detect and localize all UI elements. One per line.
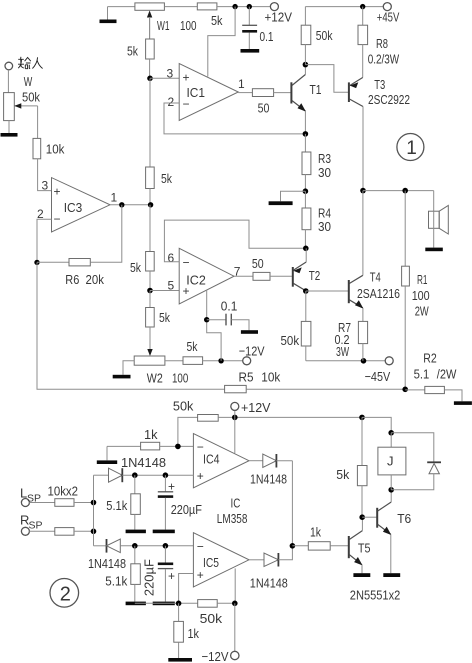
svg-text:6: 6 <box>168 251 175 265</box>
terminal -12V (bottom) <box>231 651 239 659</box>
transistor T3 <box>349 78 363 191</box>
resistor R2 5.1/2W <box>405 386 462 401</box>
wire divider bus <box>135 602 198 604</box>
resistor 5k (top rail) <box>197 3 217 10</box>
op-amp IC5 <box>193 533 249 587</box>
svg-text:−: − <box>54 212 61 226</box>
svg-text:1N4148: 1N4148 <box>121 455 166 470</box>
svg-text:50k: 50k <box>173 399 194 414</box>
svg-text:50: 50 <box>258 101 270 116</box>
terminal -45V <box>385 357 393 365</box>
svg-text:50k: 50k <box>22 90 40 105</box>
svg-text:IC5: IC5 <box>203 555 219 570</box>
ground (top left, W1 rail) <box>100 7 135 24</box>
svg-text:10k: 10k <box>261 370 280 385</box>
svg-text:2N5551x2: 2N5551x2 <box>350 588 401 603</box>
svg-text:1k: 1k <box>144 427 158 442</box>
label LSP <box>20 486 41 505</box>
terminal +12V (bottom) <box>231 402 239 417</box>
wire W1 to 5k top <box>164 6 197 8</box>
wire -45V rail <box>306 360 385 362</box>
wire 10k to IC3 pin3 <box>38 159 52 191</box>
input terminal 输入 <box>5 62 13 70</box>
node T2 emitter / T4 base <box>303 288 309 294</box>
wire node to IC1 pin3 <box>150 77 179 79</box>
svg-text:5k: 5k <box>127 44 138 59</box>
svg-text:5.1k: 5.1k <box>105 574 127 589</box>
svg-text:2: 2 <box>168 95 175 109</box>
relay J <box>378 433 406 490</box>
wire T2 emitter to T4 base <box>306 290 349 292</box>
svg-text:1: 1 <box>111 191 118 205</box>
svg-text:W: W <box>24 74 33 89</box>
svg-text:+: + <box>183 71 190 85</box>
node T1 emitter / R3 top <box>303 131 309 137</box>
resistor 5k (relay) <box>357 417 367 517</box>
svg-text:R1: R1 <box>417 272 428 287</box>
resistor 5k (d) <box>146 308 155 328</box>
resistor R4 30 <box>302 191 311 248</box>
svg-text:5k: 5k <box>187 339 198 354</box>
ground (220uF lower) <box>153 602 175 606</box>
wire T6 base <box>362 516 377 518</box>
ground (5.1k upper) <box>126 530 146 534</box>
wire input to pot W <box>7 70 9 93</box>
svg-text:2SA1216: 2SA1216 <box>357 286 400 301</box>
svg-text:3: 3 <box>167 67 174 81</box>
resistor 5.1k (lower) <box>131 546 141 602</box>
wire IC1 Vcc <box>208 7 235 77</box>
svg-text:T5: T5 <box>358 541 371 556</box>
svg-text:/2W: /2W <box>437 367 457 382</box>
node 220uF lower top <box>163 543 169 549</box>
svg-text:T2: T2 <box>309 268 321 283</box>
terminal RSP <box>21 527 29 535</box>
resistor 5k (a) <box>146 39 155 59</box>
node chain IC3 output <box>148 202 153 207</box>
wire IC4 V+ pin <box>234 417 236 453</box>
svg-text:1N4148: 1N4148 <box>250 472 287 487</box>
svg-text:IC1: IC1 <box>187 85 206 100</box>
wire IC1 output to 50 <box>238 92 252 94</box>
transistor T4 <box>349 191 364 322</box>
speaker <box>429 205 449 247</box>
resistor R8 0.2/3W <box>358 7 368 78</box>
resistor 1k (T5 base) <box>292 542 348 550</box>
ground (top 0.1 cap) <box>241 49 260 53</box>
node marker circle 1 <box>397 134 424 161</box>
svg-text:−12V: −12V <box>202 649 229 663</box>
resistor 50k (IC5 divider) <box>198 600 235 608</box>
wire bottom +12V rail <box>178 417 198 446</box>
ground (T6) <box>383 573 400 577</box>
wire 5k b to IC3 output node <box>149 189 151 205</box>
wire 1k to IC4 pin- <box>160 445 194 447</box>
svg-text:5k: 5k <box>161 171 172 186</box>
svg-text:30: 30 <box>318 165 331 180</box>
ground (W2) <box>113 375 131 379</box>
node T5 collector / T6 base <box>359 514 365 520</box>
wire T1 collector to T3 base <box>305 65 349 93</box>
wire to -12V terminal <box>234 603 236 651</box>
diode 1N4148 (IC4 output) <box>249 454 292 468</box>
wire main feedback line <box>37 262 225 389</box>
wire +45V rail <box>305 6 383 8</box>
node R1 top <box>402 188 408 194</box>
svg-text:3: 3 <box>42 179 49 193</box>
wire output rail <box>363 190 434 192</box>
wire 5k d to W2 wiper arrow <box>147 327 152 356</box>
svg-text:100: 100 <box>412 288 430 303</box>
svg-text:1N4148: 1N4148 <box>250 576 288 591</box>
node 5.1k upper top <box>132 472 138 478</box>
node 5k relay branch <box>359 415 365 421</box>
capacitor 220uF (upper) <box>158 475 173 529</box>
transistor T2 <box>293 248 306 291</box>
svg-text:R8: R8 <box>376 36 388 51</box>
node marker circle 2 <box>50 579 79 608</box>
svg-text:−12V: −12V <box>239 344 265 359</box>
svg-text:50k: 50k <box>316 28 333 43</box>
wire to speaker <box>433 191 435 212</box>
svg-text:5: 5 <box>168 279 175 293</box>
resistor 10k <box>33 138 41 158</box>
wire IC3 output <box>110 204 151 206</box>
svg-text:+: + <box>168 569 175 583</box>
wire chain node to 5k b <box>149 78 151 167</box>
resistor 10k (R input) <box>29 528 93 536</box>
label 输入 <box>18 57 43 69</box>
svg-text:IC2: IC2 <box>186 273 206 288</box>
wire IC5 + input divider <box>179 574 194 604</box>
svg-text:SP: SP <box>29 520 43 532</box>
wire mix bus vertical <box>93 475 95 546</box>
transistor T1 <box>291 65 306 134</box>
resistor 5k (e) <box>183 357 203 365</box>
node R4 bottom / T2 collector <box>303 246 309 252</box>
wire 5k c to IC2 pin5 node <box>149 271 151 291</box>
wire 5k e to -12V <box>203 360 243 362</box>
ground (speaker) <box>425 248 443 252</box>
resistor 50k (IC4 feedback) <box>198 415 219 422</box>
node -12V branch <box>218 358 223 363</box>
node output rail left <box>360 188 366 194</box>
node IC3 inverting input <box>34 260 39 265</box>
node R mix <box>91 529 97 535</box>
resistor 5k (b) <box>146 167 155 189</box>
svg-text:IC4: IC4 <box>203 452 220 467</box>
wire W2 left to ground <box>123 361 134 375</box>
svg-text:+45V: +45V <box>377 10 400 25</box>
svg-text:T3: T3 <box>374 77 385 92</box>
wire rail to relay branch <box>218 416 362 418</box>
svg-text:W2: W2 <box>147 371 163 386</box>
node relay top <box>388 430 394 436</box>
op-amp IC3 <box>52 178 111 232</box>
wire pot bottom to ground <box>8 121 10 133</box>
svg-text:+: + <box>197 568 204 582</box>
svg-text:20k: 20k <box>86 272 105 287</box>
ground (5.1k lower) <box>126 602 146 606</box>
op-amp IC1 <box>179 64 238 121</box>
terminal LSP <box>21 499 29 507</box>
svg-text:5.1k: 5.1k <box>106 498 127 513</box>
node R8 rail <box>360 4 365 9</box>
svg-text:2: 2 <box>60 583 71 605</box>
svg-text:1N4148: 1N4148 <box>88 556 126 571</box>
wire node to 5k d <box>149 291 151 308</box>
svg-text:IC3: IC3 <box>64 200 82 215</box>
wire IC2 pin6 feedback path <box>164 220 305 262</box>
svg-text:1k: 1k <box>310 525 321 540</box>
svg-text:−45V: −45V <box>365 369 391 384</box>
ground (IC4 1k input) <box>97 446 117 464</box>
svg-text:T4: T4 <box>370 270 381 285</box>
resistor R1 100 2W <box>402 191 410 390</box>
diode 1N4148 (upper) <box>94 468 194 482</box>
svg-text:0.1: 0.1 <box>221 299 238 314</box>
svg-text:LM358: LM358 <box>217 511 248 526</box>
potentiometer W1 100 <box>135 3 165 39</box>
svg-text:100: 100 <box>172 371 188 386</box>
svg-text:R5: R5 <box>239 370 254 385</box>
node rail / 0.1 cap <box>247 4 252 9</box>
ground (T5) <box>353 573 370 577</box>
svg-text:R2: R2 <box>423 351 437 366</box>
svg-text:220µF: 220µF <box>142 559 157 596</box>
svg-text:−: − <box>183 256 190 270</box>
node R7 bottom <box>361 358 367 364</box>
node diode OR <box>290 543 296 549</box>
svg-text:30: 30 <box>318 219 331 234</box>
node relay bottom <box>388 487 394 493</box>
svg-text:+12V: +12V <box>241 400 271 415</box>
node 220uF upper top <box>163 472 169 478</box>
node 5.1k lower top <box>132 543 138 549</box>
op-amp IC2 <box>179 248 234 304</box>
diode 1N4148 (IC5 output) <box>249 546 292 567</box>
resistor 50 (IC2 to T2) <box>253 272 270 280</box>
svg-text:5.1: 5.1 <box>414 367 430 382</box>
resistor 5k (c) <box>146 252 155 272</box>
ground (IC2 bypass) <box>241 330 258 334</box>
resistor 1k (IC4 input) <box>141 442 160 450</box>
svg-text:+: + <box>54 185 61 199</box>
ground (R2) <box>454 401 472 405</box>
op-amp IC4 <box>193 434 249 488</box>
svg-text:50: 50 <box>252 256 264 271</box>
potentiometer W2 100 <box>134 356 165 365</box>
resistor 50k (T2 emitter) <box>301 291 311 361</box>
wire ground to 1k <box>107 445 141 447</box>
svg-text:+12V: +12V <box>265 10 293 25</box>
svg-text:3W: 3W <box>336 344 349 359</box>
wire W2 right to 5k e <box>165 360 183 362</box>
capacitor 0.1 (top) <box>242 7 257 49</box>
label RSP <box>20 513 43 532</box>
wire node to IC2 pin5 <box>150 290 179 292</box>
svg-text:+: + <box>197 469 204 483</box>
potentiometer W 50k <box>4 93 38 121</box>
wire IC2 output to 50 <box>234 275 253 277</box>
node IC2 V- bypass <box>204 317 209 322</box>
svg-text:5k: 5k <box>211 13 223 28</box>
wire IC5 V- pin <box>234 568 236 603</box>
wire 5k to +12V <box>217 6 271 8</box>
wire IC2 V- pin to bypass node <box>207 290 221 361</box>
node IC2 pin5 <box>147 288 153 294</box>
node rail / IC1 Vcc <box>232 4 237 9</box>
resistor R6 20k <box>37 205 122 266</box>
svg-text:5k: 5k <box>159 310 170 325</box>
svg-text:IC: IC <box>231 496 241 511</box>
svg-text:0.2/3W: 0.2/3W <box>368 52 400 67</box>
node R6 feedback top <box>119 202 124 207</box>
wire node to 5k c <box>149 205 151 252</box>
svg-text:2SC2922: 2SC2922 <box>368 92 410 107</box>
svg-text:W1: W1 <box>157 18 170 33</box>
ground (below W pot) <box>1 133 18 137</box>
node IC4 inverting input <box>175 444 181 450</box>
node T1 collector <box>303 62 309 68</box>
wire rail to relay top <box>362 417 391 432</box>
node R5 / R1 / R2 <box>402 387 408 393</box>
svg-text:2W: 2W <box>415 304 430 319</box>
resistor 1k (IC5 divider) <box>174 603 184 658</box>
terminal -12V (IC2) <box>243 357 251 365</box>
svg-text:100: 100 <box>180 18 197 33</box>
wire W1 wiper chain to 5k a <box>149 17 151 39</box>
node 50k to -12V <box>232 601 238 607</box>
svg-text:1: 1 <box>238 77 245 91</box>
svg-text:220µF: 220µF <box>171 502 202 517</box>
transistor T5 <box>349 517 363 573</box>
svg-text:T6: T6 <box>397 511 411 526</box>
svg-text:J: J <box>387 454 394 469</box>
resistor 5.1k (upper) <box>131 475 141 529</box>
wire IC1 pin2 feedback to T1 emitter <box>164 103 305 134</box>
svg-text:R6: R6 <box>65 272 79 287</box>
wire IC3 pin2 left and down <box>37 219 52 262</box>
svg-text:5k: 5k <box>130 260 141 275</box>
ground (R3/R4 midpoint) <box>269 191 306 205</box>
resistor R7 0.2 3W <box>358 321 367 360</box>
svg-text:50k: 50k <box>281 333 300 348</box>
wire 50 to T1 base <box>274 92 292 94</box>
svg-text:T1: T1 <box>310 82 322 97</box>
node IC1 pin3 <box>147 76 153 82</box>
terminal +12V (top) <box>270 3 278 11</box>
resistor R5 10k <box>225 385 406 392</box>
node L mix <box>91 500 97 506</box>
svg-text:10k: 10k <box>46 142 65 157</box>
svg-text:R3: R3 <box>318 151 331 166</box>
node R3/R4 midpoint <box>303 188 309 194</box>
wire IC4 output down <box>291 461 293 546</box>
wire 5k a to node <box>149 59 151 78</box>
svg-text:10kx2: 10kx2 <box>48 484 79 499</box>
resistor 50k (T1 collector) <box>301 7 311 65</box>
resistor 50 (IC1 to T1) <box>252 89 273 97</box>
capacitor 220uF (lower) <box>158 546 173 602</box>
node +12V terminal stub <box>232 415 238 421</box>
node IC5 + divider <box>176 601 182 607</box>
svg-text:1k: 1k <box>188 626 200 641</box>
svg-text:+: + <box>168 480 175 494</box>
terminal +45V <box>383 3 391 11</box>
wire wiper down to 10k <box>37 106 39 138</box>
svg-text:−: − <box>197 540 204 554</box>
diode (relay flyback) <box>391 433 441 490</box>
resistor 10k (L input) <box>29 499 93 507</box>
resistor R3 30 <box>302 134 311 191</box>
capacitor 0.1 (IC2 bypass) <box>207 314 249 331</box>
svg-text:5k: 5k <box>336 467 349 482</box>
ground (220uF upper) <box>153 530 175 534</box>
svg-text:1: 1 <box>406 138 417 159</box>
svg-text:50k: 50k <box>200 611 223 626</box>
transistor T6 <box>377 490 391 573</box>
diode 1N4148 (lower, to R mix) <box>94 539 194 553</box>
wire 50 to T2 base <box>270 275 293 277</box>
svg-text:0.1: 0.1 <box>260 29 274 44</box>
ground (1k IC5 divider) <box>168 658 192 662</box>
